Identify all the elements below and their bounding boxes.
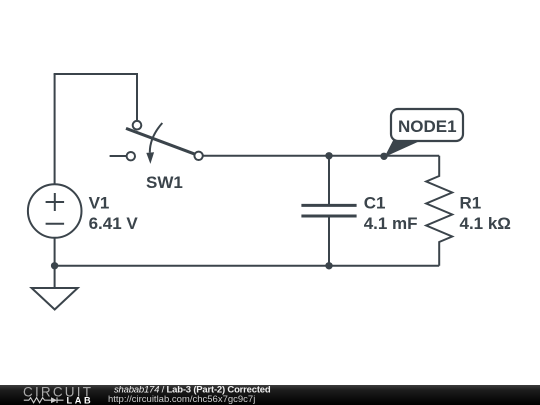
node NODE1 dot <box>380 153 387 160</box>
svg-text:R1: R1 <box>460 194 482 213</box>
resistor R1 <box>426 156 511 266</box>
footer watermark bar <box>0 384 540 405</box>
wire from V1 positive terminal up left vertical segment <box>54 74 56 185</box>
CircuitLab logo symbol resistor and diode <box>24 397 64 403</box>
wire from switch right terminal to R1 top corner <box>203 155 439 157</box>
wire top horizontal segment <box>54 73 138 75</box>
voltage source V1 plus sign <box>46 201 65 203</box>
wire down to switch top terminal <box>136 73 138 121</box>
wire bottom rail <box>55 265 440 267</box>
voltage source V1 minus sign <box>46 223 65 225</box>
switch SW1 top terminal <box>133 121 142 130</box>
svg-text:6.41 V: 6.41 V <box>89 214 139 233</box>
svg-text:http://circuitlab.com/chc56x7g: http://circuitlab.com/chc56x7gc9c7j <box>108 394 255 405</box>
voltage source V1 circle <box>28 184 82 238</box>
node NODE1 callout pointer <box>385 141 422 158</box>
svg-text:NODE1: NODE1 <box>398 117 457 136</box>
switch SW1 actuation arrow <box>150 123 163 153</box>
junction dot at ground node <box>51 262 58 269</box>
capacitor C1 top plate <box>301 204 356 207</box>
switch SW1 right terminal <box>194 152 202 160</box>
resistor R1 body <box>426 156 452 266</box>
switch SW1 left terminal <box>127 152 135 160</box>
switch SW1 blade <box>126 128 195 154</box>
junction dot at C1 bottom node <box>325 262 332 269</box>
wire from V1 negative terminal to ground node <box>54 237 56 266</box>
capacitor C1 top lead <box>328 156 330 206</box>
ground <box>32 266 78 310</box>
svg-text:LAB: LAB <box>67 395 94 405</box>
svg-text:4.1 kΩ: 4.1 kΩ <box>460 214 511 233</box>
svg-text:4.1 mF: 4.1 mF <box>364 214 418 233</box>
ground triangle <box>32 288 78 310</box>
wire stub at switch left terminal <box>110 155 127 157</box>
svg-text:C1: C1 <box>364 194 386 213</box>
svg-text:V1: V1 <box>89 194 110 213</box>
voltage source V1 <box>28 184 139 238</box>
junction dot at C1 top node <box>325 152 332 159</box>
capacitor C1 <box>301 156 417 266</box>
capacitor C1 bottom lead <box>328 216 330 266</box>
node NODE1 callout box <box>391 109 463 141</box>
svg-text:SW1: SW1 <box>146 173 183 192</box>
switch SW1 <box>126 121 203 192</box>
ground lead <box>54 266 56 288</box>
capacitor C1 bottom plate <box>301 215 356 218</box>
